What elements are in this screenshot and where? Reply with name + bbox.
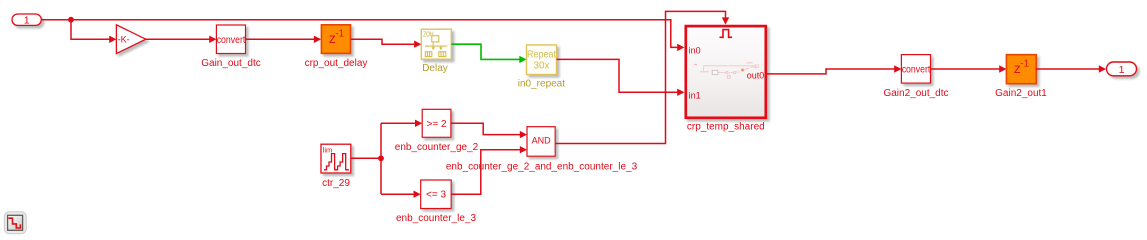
subsystem crp_temp_shared	[686, 26, 766, 118]
arrowhead into in0	[677, 44, 684, 51]
viewer badge icon	[4, 212, 26, 234]
wire to <= 3	[381, 193, 415, 195]
wire AND to trigger port	[555, 11, 725, 143]
svg-text:<= 3: <= 3	[426, 190, 446, 201]
svg-text:Repeat: Repeat	[527, 49, 556, 60]
wire inport to in0 (crosses trigger wire)	[42, 20, 678, 48]
svg-text:-1: -1	[335, 29, 344, 40]
unit delay crp_out_delay	[321, 25, 350, 54]
wire convert2 to Gain2_out1	[931, 68, 1001, 70]
wire <=3 to AND	[451, 150, 521, 195]
AND block	[527, 127, 555, 157]
svg-text:-1: -1	[1020, 58, 1029, 69]
svg-text:in0_repeat: in0_repeat	[518, 79, 565, 90]
wire Repeat to in1	[557, 59, 678, 92]
junction dot	[68, 17, 74, 23]
svg-text:1: 1	[1119, 64, 1125, 76]
arrowhead down into trigger	[722, 17, 729, 24]
branch vertical	[380, 123, 382, 194]
faint contents preview	[694, 63, 761, 78]
svg-text:enb_counter_le_3: enb_counter_le_3	[396, 213, 477, 224]
convert block Gain_out_dtc	[216, 25, 245, 54]
svg-text:in1: in1	[689, 91, 701, 101]
svg-text:Delay: Delay	[422, 63, 448, 74]
arrowhead into gain	[109, 36, 116, 43]
svg-text:30x: 30x	[533, 61, 549, 72]
Repeat block in0_repeat	[527, 45, 557, 75]
wire gain to convert	[146, 38, 210, 40]
svg-text:ctr_29: ctr_29	[322, 178, 350, 189]
svg-text:in0: in0	[689, 46, 701, 56]
svg-text:crp_temp_shared: crp_temp_shared	[687, 122, 765, 133]
compare block enb_counter_le_3	[421, 180, 452, 209]
svg-text:Gain2_out_dtc: Gain2_out_dtc	[883, 88, 948, 99]
HDL Delay block	[421, 29, 451, 59]
counter block ctr_29	[321, 144, 351, 173]
wire Z-1 to Delay	[351, 39, 416, 44]
wire out0 to convert2	[767, 69, 895, 74]
junction dot	[378, 155, 384, 161]
svg-text:1: 1	[24, 15, 30, 27]
trigger glyph	[720, 30, 733, 38]
arrowhead	[209, 36, 216, 43]
unit delay Gain2_out1	[1006, 55, 1036, 84]
svg-text:out0: out0	[747, 71, 765, 81]
svg-text:crp_out_delay: crp_out_delay	[305, 58, 368, 69]
svg-text:Gain2_out1: Gain2_out1	[995, 88, 1047, 99]
arrowhead into Delay	[414, 41, 421, 48]
compare block enb_counter_ge_2	[422, 109, 451, 137]
svg-text:>= 2: >= 2	[426, 119, 446, 130]
arrowhead into in1	[677, 89, 684, 96]
svg-text:-K-: -K-	[118, 34, 130, 44]
wire branch down to gain	[71, 20, 110, 40]
inport 1	[12, 14, 41, 27]
svg-text:convert: convert	[902, 65, 931, 76]
green wire Delay to Repeat	[451, 44, 520, 59]
wire >=2 to AND	[451, 123, 521, 134]
wire to >= 2	[381, 122, 416, 124]
svg-text:convert: convert	[217, 35, 246, 46]
wire ctr_29 out with junction	[351, 157, 381, 159]
svg-text:enb_counter_ge_2_and_enb_count: enb_counter_ge_2_and_enb_counter_le_3	[446, 162, 638, 173]
svg-text:AND: AND	[532, 135, 552, 145]
convert block Gain2_out_dtc	[901, 55, 930, 84]
wire Gain2_out1 to outport	[1036, 68, 1100, 70]
arrowhead	[314, 36, 321, 43]
svg-text:enb_counter_ge_2: enb_counter_ge_2	[395, 142, 479, 153]
green arrowhead	[519, 56, 526, 63]
outport 1	[1107, 62, 1137, 76]
svg-text:Gain_out_dtc: Gain_out_dtc	[201, 58, 261, 69]
gain -K-	[116, 25, 145, 54]
wire convert to delay Z-1	[246, 38, 315, 40]
